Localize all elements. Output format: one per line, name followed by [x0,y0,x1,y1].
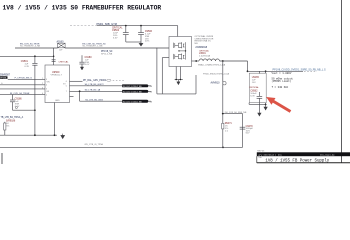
node rail-C9506 [140,25,142,27]
wire row 3 left [0,88,45,90]
capacitor C8562 [258,92,260,96]
wire feedback tap [223,113,243,115]
svg-text:DK_1V8_S0_FB5_NB: DK_1V8_S0_FB5_NB [225,112,247,114]
ground output [264,105,267,110]
middle web wires [157,93,196,95]
svg-text:JX5_CTB_J0_TP5A: JX5_CTB_J0_TP5A [84,143,103,146]
svg-text:6: 6 [66,81,67,83]
svg-text:6.3V: 6.3V [25,66,30,68]
svg-text:PP1V8_S: PP1V8_S [0,78,9,80]
node R9471-gnd [222,147,224,149]
svg-text:R9471: R9471 [225,122,233,125]
svg-text:20%: 20% [145,41,149,43]
svg-text:1.0uH/4.0A: 1.0uH/4.0A [199,55,210,58]
svg-text:Title: Title [258,156,262,159]
svg-text:IN_CVD_S0_TRGR: IN_CVD_S0_TRGR [10,93,30,95]
wire output corner drop [247,61,249,71]
pin stub right 4 [70,96,74,98]
inductor L9501 [192,50,226,67]
svg-text:S0_LTB_B0_0005: S0_LTB_B0_0005 [85,99,103,101]
svg-text:5%: 5% [6,125,9,127]
svg-text:GND: GND [55,100,60,102]
wire box ground [248,103,250,105]
svg-text:5.0V: 5.0V [85,64,90,66]
wire output gnd drop [265,71,267,104]
resistor R9471 [222,122,233,132]
svg-text:P9500_SNUB-GYM70-2-10A: P9500_SNUB-GYM70-2-10A [203,73,230,76]
svg-text:A9160: A9160 [57,40,65,43]
svg-text:S0_LTB_B0_0007V: S0_LTB_B0_0007V [85,84,105,86]
svg-text:AVM910: AVM910 [211,82,221,85]
flag S0_LDO row4 [122,100,148,103]
sheet right border [341,0,343,163]
svg-text:50V: 50V [246,133,250,135]
svg-text:S0_TRGBURT_1_NB: S0_TRGBURT_1_NB [82,46,103,48]
transistor pair Q9501 box [169,37,192,67]
svg-text:7: 7 [66,91,67,93]
ground rail upper [0,134,57,136]
transistor Q-high [173,42,184,48]
capacitor C9501 [21,56,38,135]
svg-text:6.3V: 6.3V [250,96,255,98]
svg-text:APW 05870343 | 051: APW 05870343 | 051 [258,153,282,156]
ground power stage [175,67,177,80]
wire gate drive [162,57,169,59]
output row 3 [70,90,152,92]
svg-text:S0_TRGBURT_4_NB: S0_TRGBURT_4_NB [20,46,41,48]
svg-text:051-8943-09: 051-8943-09 [320,153,335,156]
svg-text:2N30M918: 2N30M918 [195,46,207,49]
svg-text:55M9587: 55M9587 [0,73,11,76]
capacitor C9506 [138,26,153,43]
svg-text:U9165: U9165 [252,76,260,79]
svg-text:S/R9186: S/R9186 [6,119,16,122]
capacitor C9186 [10,95,36,111]
svg-text:S0_LDO_LCD0-0_NB: S0_LDO_LCD0-0_NB [123,101,142,103]
svg-text:NB: NB [195,43,199,45]
svg-text:U9500: U9500 [52,71,60,74]
svg-text:C9501: C9501 [21,60,29,63]
wire row P_CPVDD [8,78,45,80]
output row 1 PP_RAL [70,80,83,82]
capacitor C9160 [79,55,92,70]
net PM01 dashed off-page [70,25,96,27]
svg-text:C9186: C9186 [15,98,23,101]
transistor Q-low [173,54,184,60]
node rail-C9502 [125,25,127,27]
svg-text:CRITICAL: CRITICAL [59,61,70,64]
svg-text:S0_LTB_B0_1A: S0_LTB_B0_1A [85,89,101,92]
test point AVM910 [203,61,230,147]
flag S0_LDO row3 [122,90,148,93]
wire U9500 gnd [54,103,56,136]
title block [257,151,350,164]
wire cap ground bus [126,41,141,43]
flag S0_LDO row2 [122,84,148,87]
svg-text:PP1V8_CLVDD_OVDD1_S0RE_S0_FB_N: PP1V8_CLVDD_OVDD1_S0RE_S0_FB_NB_L.S [273,68,326,71]
net PP1V8_CLVDD (blue) [248,70,304,72]
svg-text:S0_LDO_LCD0-2_NB: S0_LDO_LCD0-2_NB [123,86,142,88]
svg-text:PP_RAL_GPU_P0000: PP_RAL_GPU_P0000 [83,79,107,82]
red callout arrow [266,97,291,113]
output capacitor group box [249,71,266,102]
output row 4 [79,91,81,101]
svg-text:1V8 / 1V55 / 1V35 S0 FRAMEBUFF: 1V8 / 1V55 / 1V35 S0 FRAMEBUFFER REGULAT… [3,4,162,11]
wire input rail [97,25,178,27]
svg-text:SMALL_DRAW-GYM70-2-10A: SMALL_DRAW-GYM70-2-10A [198,64,226,67]
svg-text:C8562: C8562 [250,90,258,93]
svg-text:4: 4 [46,85,47,87]
ferrite bead A9160 [15,40,169,51]
ground symbol rail1 [61,134,65,139]
svg-text:Vout = 1.800V: Vout = 1.800V [272,72,292,75]
svg-text:P_CPVDD_EN_S: P_CPVDD_EN_S [15,78,33,80]
svg-text:2: 2 [46,94,47,96]
wire row IN_CVD [0,94,45,96]
output row 2 [70,85,152,87]
capacitor C9502 [112,26,129,42]
input flag PP1V8 [0,73,11,79]
svg-text:(PMOS5 Limit): (PMOS5 Limit) [272,79,292,83]
node switch [185,42,187,59]
wire U9500 VIN [53,48,55,65]
wire rail drop to power stage [177,26,179,37]
svg-text:SPCL2_NB: SPCL2_NB [101,53,113,55]
border stub bottom left [1,153,3,164]
wire C9470 branch [242,114,244,148]
wire switch node to output [220,60,248,62]
ground caps [139,42,143,46]
wire row 2 left [0,84,45,86]
capacitor C9470 [240,125,254,135]
resistor R9186 [4,119,16,135]
svg-text:6.3V: 6.3V [113,37,118,39]
svg-text:f = 340 KHz: f = 340 KHz [272,85,289,89]
ground rail lower [0,146,243,148]
svg-text:5: 5 [66,86,67,88]
svg-text:1: 1 [42,78,43,80]
svg-text:S0_LDO_LCD0-1_NB: S0_LDO_LCD0-1_NB [123,91,142,93]
ground C8562 [258,103,260,113]
svg-text:6.3V: 6.3V [15,106,20,108]
svg-text:VFSEL8-L7: VFSEL8-L7 [51,75,63,77]
regulator U9500 [45,65,70,103]
wire 1V8 feed [0,55,54,57]
svg-text:10V: 10V [252,82,256,84]
